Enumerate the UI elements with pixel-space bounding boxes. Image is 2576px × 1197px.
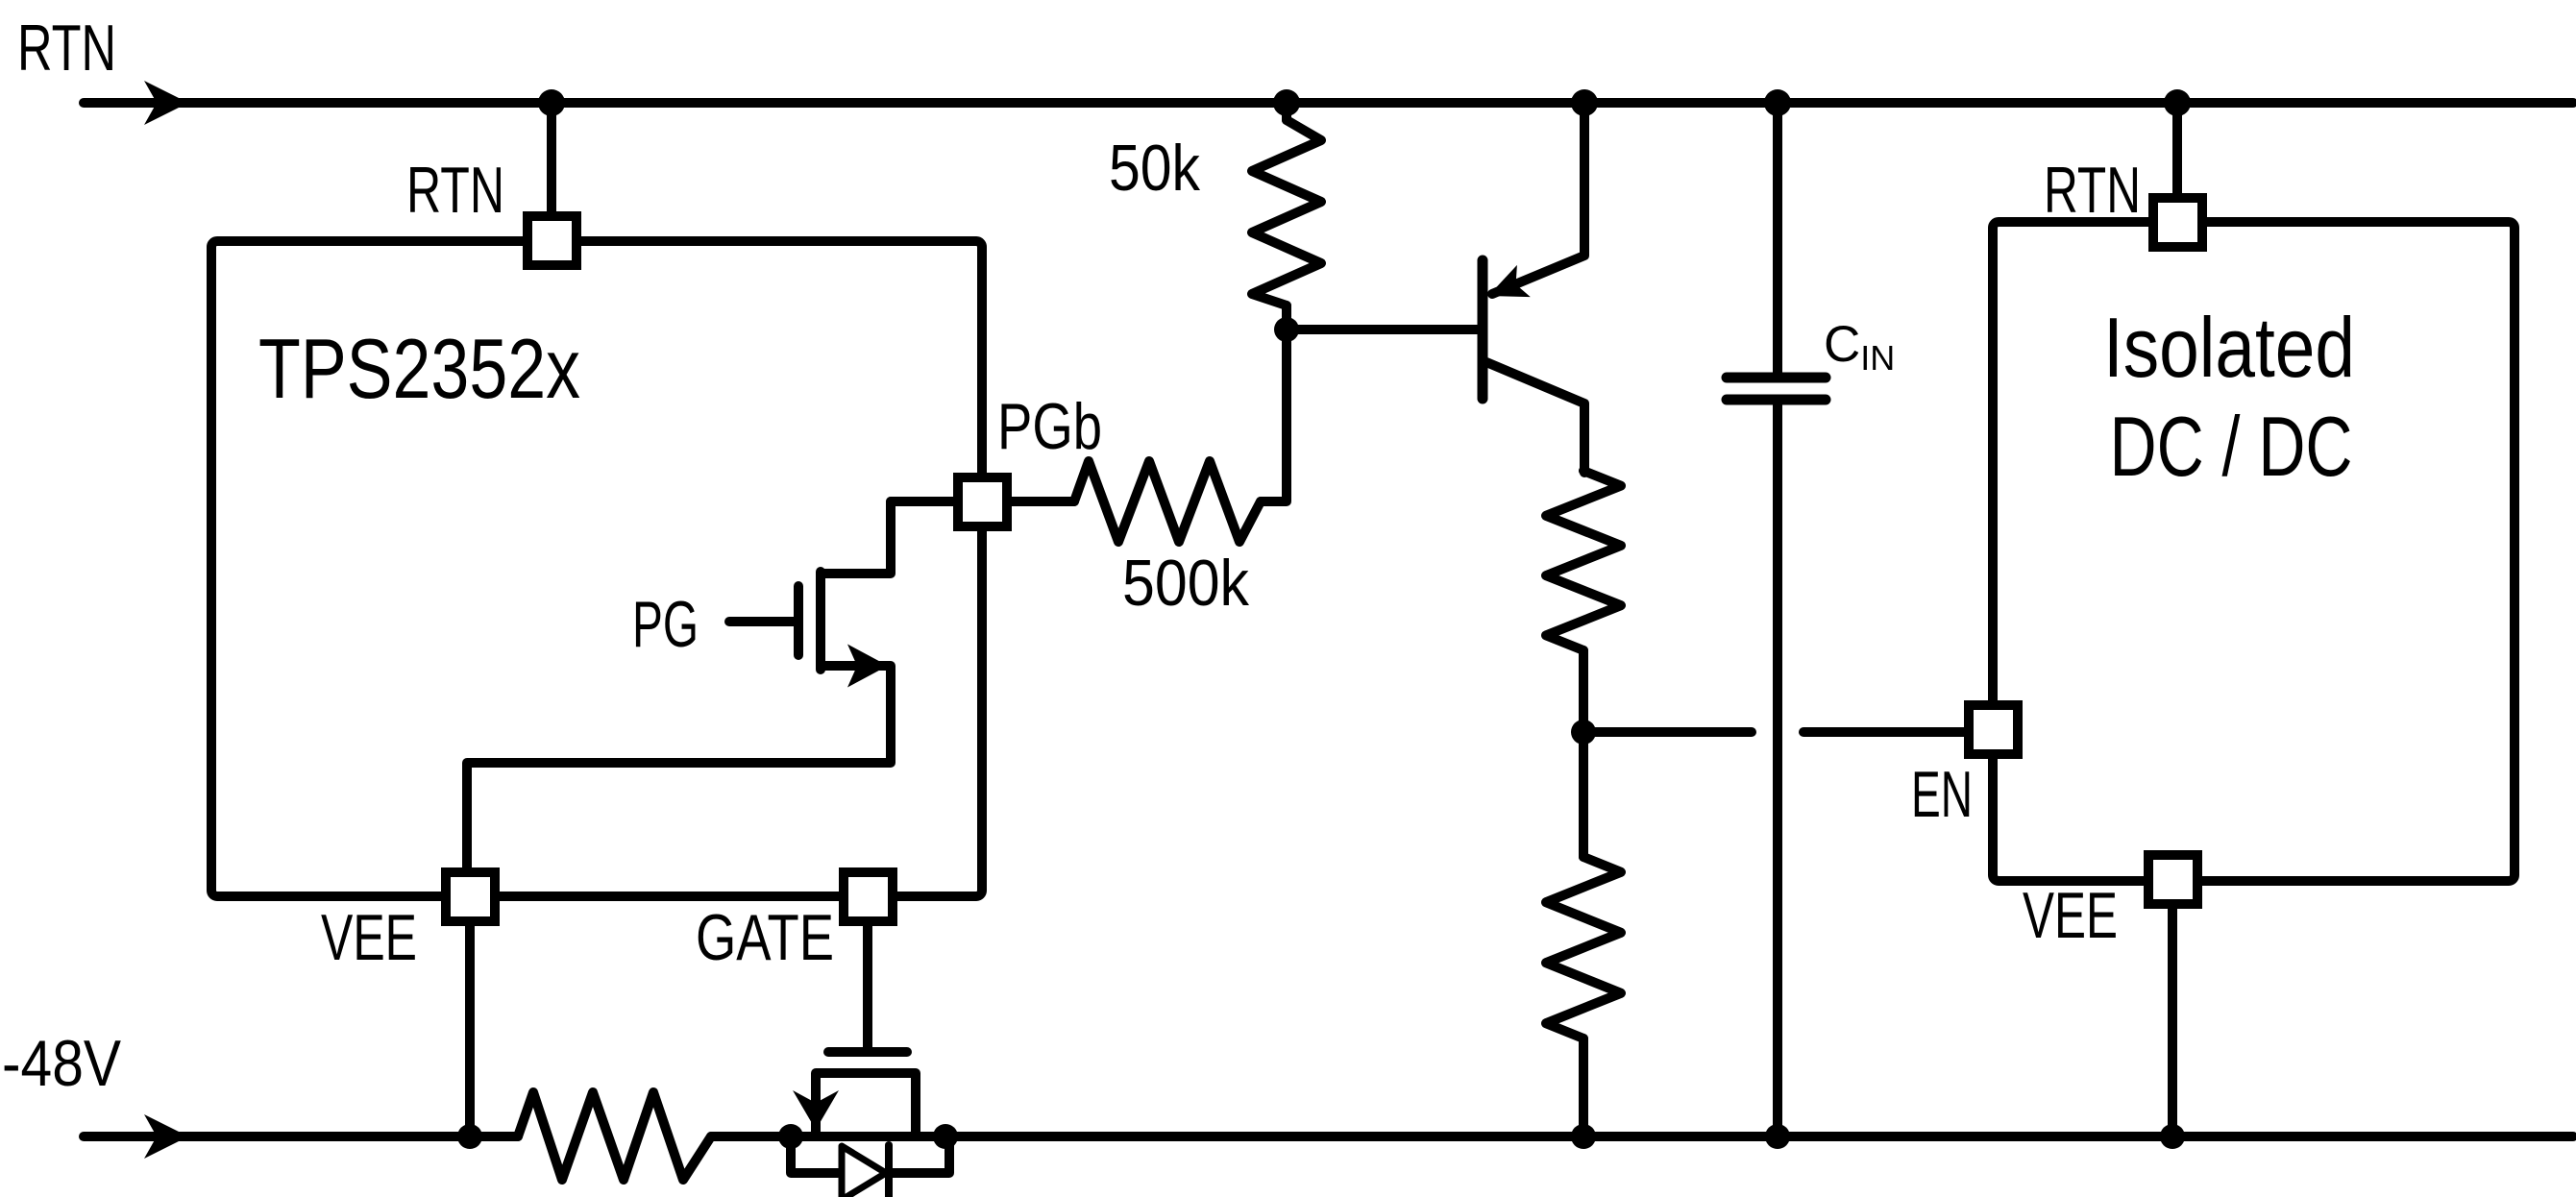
pin RTN of DC/DC [2153,198,2202,247]
svg-text:PGb: PGb [997,390,1102,463]
svg-text:-48V: -48V [2,1027,122,1100]
resistor R1 (gate/sense) in -48V feed [518,1092,711,1180]
pin GATE of U1 [844,872,893,921]
module DC/DC converter outline [1993,222,2515,881]
wire EN node to cap gap [1583,727,1752,737]
junction dot C_IN top [1764,89,1791,116]
wire base node to Q1 base [1287,325,1479,334]
diode D1 body diode [842,1146,886,1197]
wire rail to DC/DC RTN pin [2172,103,2182,200]
svg-text:RTN: RTN [406,154,504,227]
junction dot C_IN bottom [1765,1124,1790,1149]
svg-text:500k: 500k [1122,547,1250,620]
diode D1 cathode bar [885,1145,893,1197]
junction dot Q1 emitter rail [1571,89,1598,116]
wire top RTN rail [84,98,2573,108]
wire 50k top stub [1282,103,1291,120]
svg-text:Isolated: Isolated [2103,300,2355,395]
pin VEE of U1 [446,872,495,921]
svg-text:VEE: VEE [2023,879,2118,952]
junction dot DC/DC RTN tap [2164,89,2191,116]
wire GATE to Q2 gate [863,921,872,1048]
wire bottom -48V rail right [711,1132,2573,1141]
transistor M1 body bar [816,572,825,670]
wire Q1 collector [1486,362,1584,473]
svg-text:EN: EN [1911,758,1973,831]
resistor R2 upper divider [1546,471,1621,650]
pin EN of DC/DC [1969,705,2018,754]
transistor M1 gate bar [794,586,803,655]
wire PGb to 500k [1007,497,1074,506]
wire cap gap to EN pin [1803,727,1969,737]
svg-text:50k: 50k [1109,132,1201,205]
wire rail to RTN pin [547,103,556,219]
arrow M1 source arrow [847,645,888,688]
wire diode anode branch [791,1136,838,1173]
resistor 500k [1074,461,1261,542]
svg-text:PG: PG [632,588,699,661]
arrow RTN input direction [144,81,188,125]
capacitor C_IN bottom plate [1727,395,1826,405]
wire DC/DC VEE to rail [2168,904,2177,1136]
junction dot Q2 source [778,1124,803,1149]
wire Q1 emitter [1492,103,1584,294]
arrow Q2 body arrow [793,1090,839,1130]
wire C_IN top lead [1773,103,1782,373]
arrow Q1 emitter arrow (PNP) [1488,265,1531,297]
svg-text:GATE: GATE [696,901,834,974]
transistor Q2 gate bar [828,1047,907,1057]
capacitor C_IN top plate [1727,373,1826,383]
transistor Q2 channel [816,1073,916,1136]
wire R2 to EN node [1579,650,1588,732]
arrow -48V input direction [144,1114,188,1159]
svg-text:DC / DC: DC / DC [2110,399,2353,494]
svg-text:TPS2352x: TPS2352x [258,321,580,416]
junction dot VEE rail [457,1124,482,1149]
wire VEE to -48V rail [465,921,475,1136]
resistor 50k [1252,120,1321,305]
wire C_IN bottom lead [1773,404,1782,1136]
pin PGb of U1 [958,477,1007,526]
resistor R3 lower divider [1546,857,1621,1038]
wire 500k to base node [1261,330,1287,501]
wire M1 drain [821,501,891,574]
wire PG gate lead [729,617,795,626]
wire diode cathode branch [889,1136,949,1173]
junction dot R3 rail [1571,1124,1596,1149]
wire 50k bottom to base node [1282,305,1291,330]
pin VEE of DC/DC [2148,855,2197,904]
wire R3 bottom lead [1579,1038,1588,1136]
junction dot DC/DC VEE rail [2160,1124,2185,1149]
svg-text:CIN: CIN [1824,316,1895,378]
wire bottom -48V rail left [84,1132,518,1141]
IC U1 TPS2352x outline [211,241,982,896]
junction dot Q2 drain [933,1124,958,1149]
transistor Q1 base bar [1478,260,1488,399]
wire PGb pin to drain [891,497,958,506]
svg-text:RTN: RTN [17,12,116,85]
pin RTN of U1 [527,216,577,265]
junction dot base node [1274,317,1299,342]
wire R3 top lead [1579,732,1588,857]
wire M1 source [467,666,891,872]
svg-text:VEE: VEE [321,901,417,974]
svg-text:RTN: RTN [2044,154,2141,227]
junction dot at RTN tap [538,89,565,116]
junction dot 50k top [1273,89,1300,116]
junction dot EN node [1571,720,1596,745]
